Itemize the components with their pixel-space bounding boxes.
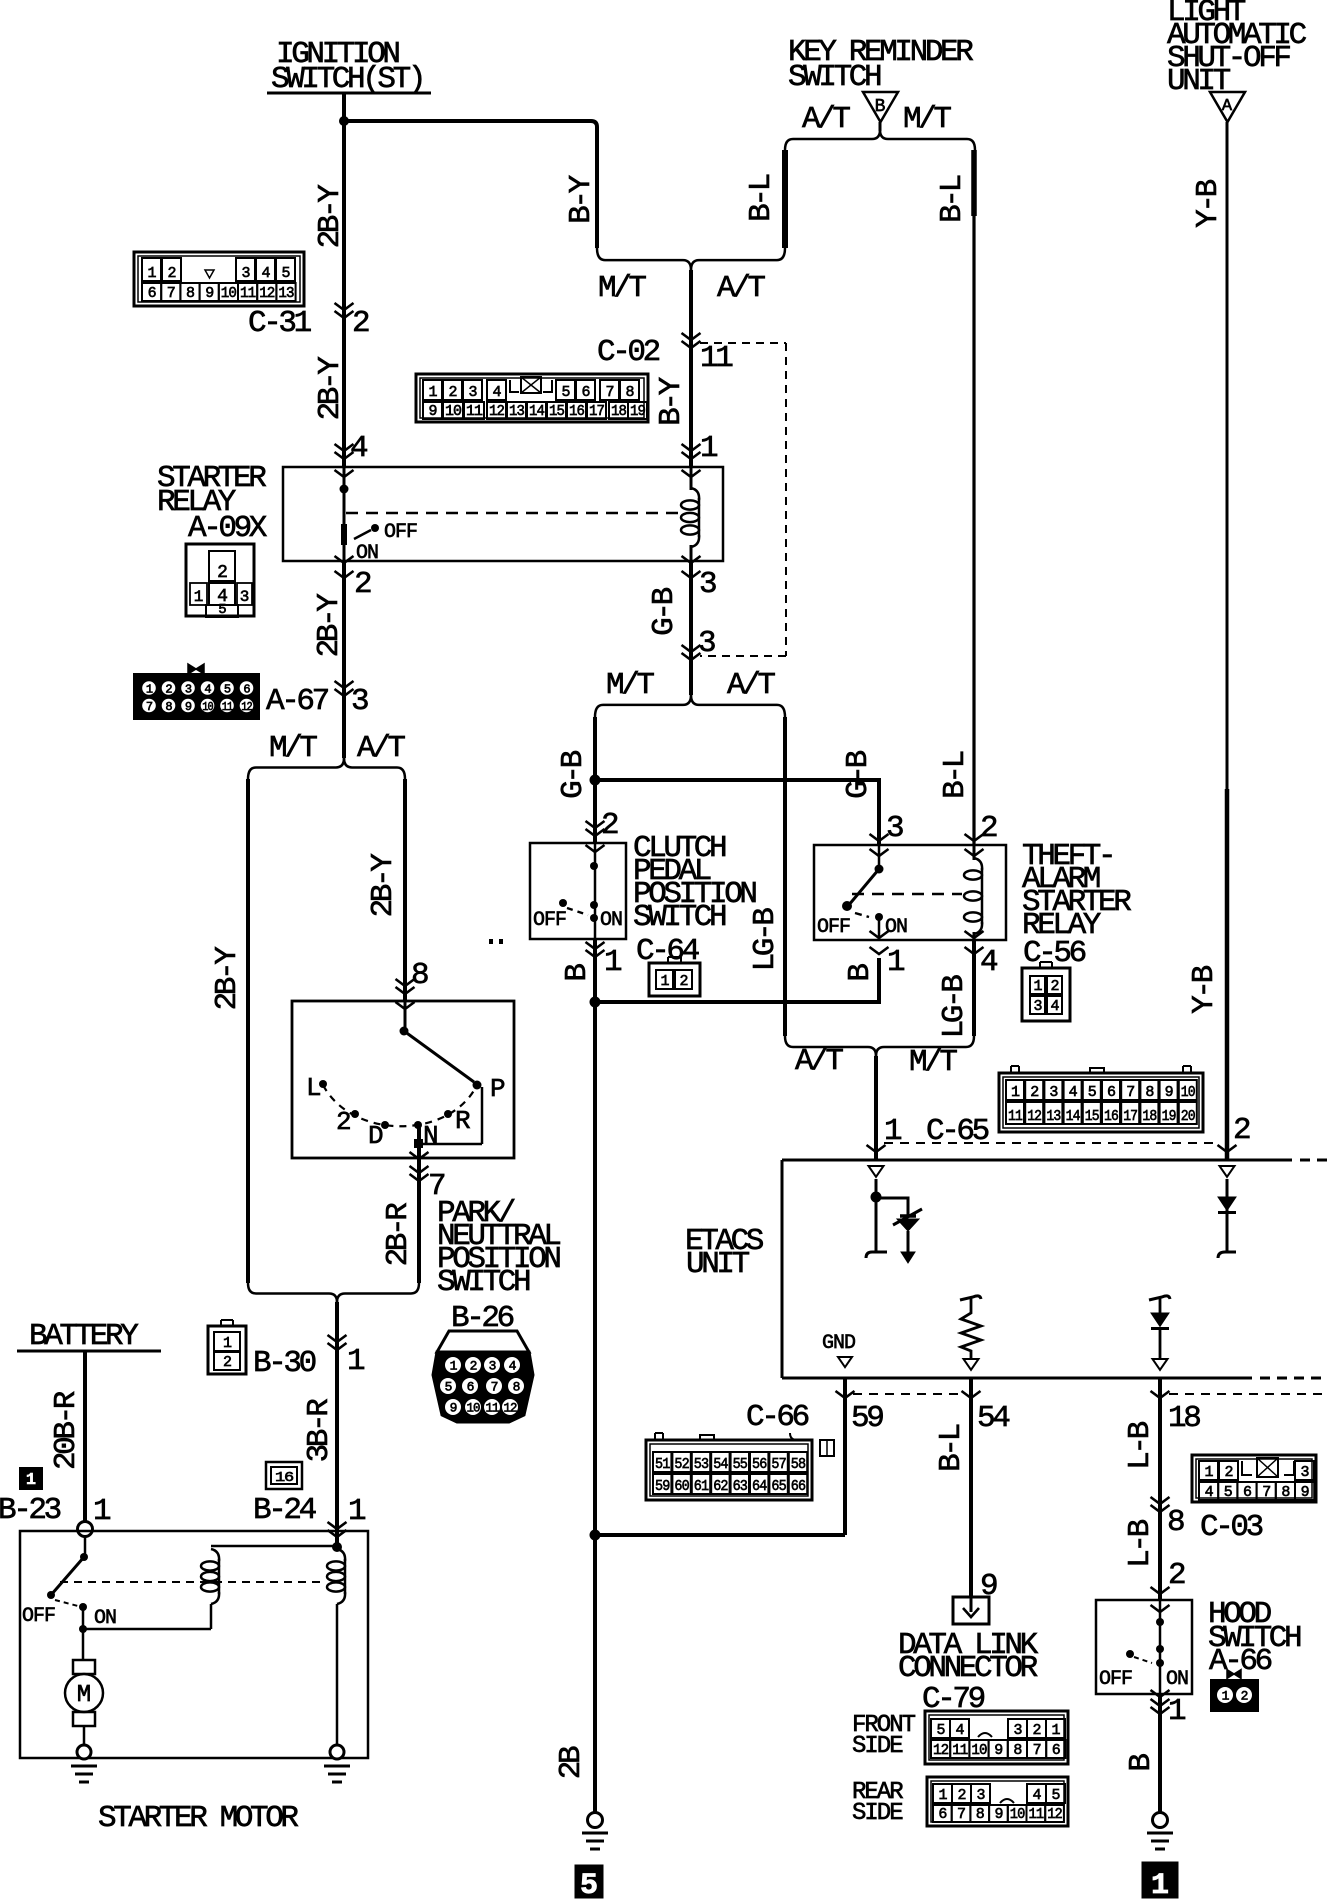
svg-text:56: 56	[752, 1456, 767, 1473]
wire M/T 2B-Y long left	[246, 779, 250, 1283]
connector C-03 icon	[1192, 1455, 1316, 1502]
wire N output	[417, 1125, 421, 1283]
C-66 side icon	[820, 1440, 834, 1456]
starter relay A-09X box	[283, 467, 723, 561]
svg-text:B-24: B-24	[253, 1493, 317, 1528]
park/neutral position switch box	[292, 1001, 514, 1158]
svg-text:6: 6	[1107, 1084, 1116, 1101]
connector C-02 pin 11 crossing	[682, 333, 701, 340]
svg-text:11: 11	[1008, 1108, 1023, 1125]
clutch pin 2 entry	[586, 821, 605, 828]
svg-text:1: 1	[428, 384, 437, 401]
svg-text:C-66: C-66	[746, 1400, 809, 1435]
svg-text:51: 51	[655, 1456, 670, 1473]
svg-text:15: 15	[1085, 1108, 1100, 1125]
svg-text:1: 1	[26, 1471, 36, 1490]
position dots and labels	[319, 1080, 327, 1088]
svg-text:ON: ON	[1166, 1668, 1188, 1691]
svg-text:4: 4	[204, 682, 211, 696]
svg-text:2B-Y: 2B-Y	[313, 356, 348, 421]
svg-text:2: 2	[1032, 1722, 1040, 1739]
svg-text:2: 2	[167, 265, 175, 282]
svg-text:65: 65	[771, 1478, 786, 1495]
svg-text:SWITCH: SWITCH	[633, 900, 726, 935]
svg-text:A-09X: A-09X	[188, 511, 268, 546]
ground bottom middle	[588, 1813, 603, 1828]
svg-text:2B-Y: 2B-Y	[313, 184, 348, 249]
svg-text:SWITCH: SWITCH	[437, 1265, 530, 1300]
svg-text:1: 1	[146, 682, 153, 696]
svg-text:ON: ON	[885, 916, 907, 939]
svg-text:2: 2	[1224, 1464, 1232, 1481]
ETACS zener diode	[900, 1214, 916, 1218]
svg-text:LG-B: LG-B	[937, 975, 972, 1039]
svg-text:11: 11	[466, 403, 483, 420]
junction clutch/theft outputs	[590, 997, 601, 1008]
svg-text:M/T: M/T	[606, 668, 654, 703]
svg-text:G-B: G-B	[647, 587, 682, 635]
brace merge M/T A/T to starter	[248, 1283, 337, 1302]
svg-text:ON: ON	[600, 909, 622, 932]
svg-text:5: 5	[580, 1869, 598, 1900]
svg-text:10: 10	[1010, 1806, 1026, 1823]
svg-text:B-L: B-L	[934, 1424, 969, 1471]
ground bottom right	[1153, 1813, 1168, 1828]
svg-text:12: 12	[259, 285, 274, 302]
dashed right of 18	[1169, 1393, 1324, 1395]
theft relay internal dashed	[852, 893, 962, 895]
svg-text:4: 4	[955, 1722, 964, 1739]
theft-alarm starter relay box	[814, 845, 1006, 940]
svg-text:9: 9	[205, 285, 213, 302]
svg-text:17: 17	[1123, 1108, 1137, 1125]
wire B-L A/T left	[782, 150, 788, 248]
svg-text:6: 6	[581, 384, 590, 401]
svg-text:B-Y: B-Y	[654, 376, 689, 425]
connector A-67 icon	[188, 664, 204, 674]
starter motor hold coil	[332, 1542, 342, 1552]
svg-text:11: 11	[700, 341, 733, 376]
svg-text:CONNECTOR: CONNECTOR	[898, 1651, 1038, 1686]
svg-text:59: 59	[655, 1478, 669, 1495]
svg-text:G-B: G-B	[841, 750, 876, 798]
wire theft relay pin1 link	[595, 958, 879, 1002]
svg-text:5: 5	[1224, 1484, 1233, 1501]
svg-text:7: 7	[1033, 1742, 1041, 1759]
svg-text:LG-B: LG-B	[748, 908, 783, 972]
svg-text:SIDE: SIDE	[852, 1800, 903, 1827]
svg-text:19: 19	[1162, 1108, 1176, 1125]
svg-text:BATTERY: BATTERY	[29, 1319, 139, 1354]
ETACS pin 54 wire B-L	[969, 1378, 973, 1597]
connector A-09X pin 4 entry	[335, 444, 354, 451]
svg-text:6: 6	[243, 682, 250, 696]
svg-text:12: 12	[1027, 1108, 1041, 1125]
svg-text:ON: ON	[356, 542, 378, 565]
connector C-03 crossing	[1151, 1497, 1170, 1504]
svg-text:6: 6	[148, 285, 157, 302]
svg-text:15: 15	[549, 403, 565, 420]
connector C-31 crossing	[335, 303, 354, 310]
svg-text:8: 8	[1013, 1742, 1022, 1759]
svg-text:6: 6	[1243, 1484, 1252, 1501]
wire M/T to clutch switch	[593, 717, 597, 843]
svg-text:2: 2	[1050, 978, 1058, 995]
hood switch contacts	[1151, 1605, 1170, 1612]
svg-text:A/T: A/T	[795, 1044, 843, 1079]
svg-text:1: 1	[1033, 978, 1042, 995]
svg-text:12: 12	[489, 403, 504, 420]
svg-text:A: A	[1222, 97, 1233, 116]
svg-text:OFF: OFF	[817, 916, 850, 939]
relay A-09X pin 2 exit	[335, 556, 354, 563]
svg-text:2: 2	[223, 1354, 231, 1371]
svg-text:9: 9	[994, 1742, 1002, 1759]
svg-text:7: 7	[1126, 1084, 1134, 1101]
wire ignition ST vertical 2B-Y	[342, 94, 346, 467]
svg-text:5: 5	[1051, 1787, 1060, 1804]
dashed C-02 boundary	[700, 342, 786, 344]
svg-text:5: 5	[445, 1380, 452, 1395]
starter motor M	[73, 1660, 95, 1674]
svg-text:18: 18	[1142, 1108, 1157, 1125]
svg-text:ON: ON	[94, 1607, 116, 1630]
svg-text:5: 5	[1088, 1084, 1097, 1101]
svg-text:12: 12	[933, 1742, 948, 1759]
wire B to ground	[1158, 1694, 1162, 1813]
svg-text:M/T: M/T	[909, 1045, 957, 1080]
svg-text:2: 2	[336, 1107, 350, 1137]
svg-text:20: 20	[1181, 1108, 1196, 1125]
svg-text:Y-B: Y-B	[1187, 965, 1222, 1013]
svg-text:2: 2	[601, 808, 618, 843]
connector C-79 rear icon	[927, 1777, 1068, 1826]
svg-text:9: 9	[1165, 1084, 1173, 1101]
svg-text:13: 13	[1046, 1108, 1061, 1125]
wire merged to starter motor	[335, 1302, 339, 1547]
svg-text:M/T: M/T	[269, 731, 317, 766]
svg-text:11: 11	[1029, 1806, 1045, 1823]
svg-text:8: 8	[1145, 1084, 1154, 1101]
svg-text:3: 3	[185, 682, 192, 696]
wire Y-B long	[1226, 122, 1229, 789]
svg-text:9: 9	[994, 1806, 1002, 1823]
svg-text:1: 1	[1222, 1689, 1230, 1704]
page ref triangle A	[1210, 92, 1245, 122]
svg-text:A/T: A/T	[727, 668, 775, 703]
wire merged to starter relay	[689, 270, 693, 467]
clutch pin 1 exit	[586, 942, 605, 949]
svg-text:A/T: A/T	[802, 102, 850, 137]
svg-text:9: 9	[185, 700, 192, 714]
svg-text:11: 11	[952, 1742, 968, 1759]
svg-text:C-03: C-03	[1200, 1510, 1263, 1545]
svg-text:2B-Y: 2B-Y	[366, 853, 401, 918]
theft relay coil	[973, 845, 976, 860]
ETACS diode to pin 18	[1149, 1296, 1170, 1300]
svg-text:A/T: A/T	[717, 271, 765, 306]
svg-text:2: 2	[980, 811, 997, 846]
svg-text:2B-Y: 2B-Y	[210, 946, 245, 1011]
svg-text:3: 3	[240, 588, 249, 606]
svg-text:5: 5	[936, 1722, 945, 1739]
hood switch box	[1096, 1600, 1192, 1694]
svg-text:12: 12	[241, 700, 252, 714]
svg-text:UNIT: UNIT	[1167, 64, 1231, 99]
theft relay pin 3 chevrons	[870, 834, 889, 841]
svg-text:3B-R: 3B-R	[302, 1399, 337, 1463]
svg-text:1: 1	[1204, 1464, 1213, 1481]
starter motor box	[20, 1531, 368, 1758]
svg-text:3: 3	[489, 1359, 496, 1374]
theft relay switch	[878, 845, 881, 869]
svg-text:58: 58	[791, 1456, 806, 1473]
theft relay pin 1 exit	[870, 931, 889, 938]
svg-text:60: 60	[674, 1478, 689, 1495]
svg-text:14: 14	[529, 403, 545, 420]
svg-text:1: 1	[1151, 1869, 1169, 1900]
connector C-02 pin 1 entry to relay	[682, 444, 701, 451]
brace split A/T M/T under key reminder switch	[785, 130, 880, 150]
wire branch to B-Y merge	[344, 121, 597, 248]
svg-text:2: 2	[957, 1787, 965, 1804]
svg-text:6: 6	[938, 1806, 947, 1823]
svg-text:10: 10	[467, 1401, 480, 1416]
svg-text:9: 9	[1301, 1484, 1309, 1501]
svg-text:12: 12	[1047, 1806, 1062, 1823]
svg-text:2B: 2B	[554, 1746, 589, 1779]
connector B-30 icon	[208, 1326, 246, 1374]
svg-text:2: 2	[1168, 1558, 1185, 1593]
svg-text:7: 7	[605, 384, 613, 401]
svg-text:OFF: OFF	[533, 909, 566, 932]
svg-text:66: 66	[791, 1478, 806, 1495]
svg-text:10: 10	[971, 1742, 987, 1759]
svg-text:5: 5	[281, 265, 290, 282]
svg-text:3: 3	[1300, 1464, 1309, 1481]
svg-text:12: 12	[504, 1401, 517, 1416]
svg-text:2: 2	[679, 973, 687, 990]
svg-text:3: 3	[1049, 1084, 1058, 1101]
wire P position link	[481, 1087, 484, 1144]
svg-text:8: 8	[165, 700, 172, 714]
clutch switch contacts	[594, 843, 597, 939]
svg-text:10: 10	[445, 403, 462, 420]
ETACS unit box	[781, 1160, 784, 1378]
svg-text:7: 7	[1262, 1484, 1270, 1501]
wire to ETACS pin 1	[874, 1056, 878, 1160]
svg-text:OFF: OFF	[22, 1605, 55, 1628]
svg-text:63: 63	[733, 1478, 748, 1495]
starter motor switch	[84, 1536, 87, 1557]
svg-text:D: D	[368, 1121, 383, 1151]
C-65 dashed boundary	[884, 1142, 1219, 1144]
connector B-26 icon	[437, 1331, 529, 1352]
svg-text:57: 57	[771, 1456, 785, 1473]
starter motor ground right	[330, 1745, 344, 1759]
svg-text:16: 16	[275, 1470, 294, 1486]
page number 1	[1142, 1862, 1178, 1898]
svg-text:2: 2	[352, 306, 369, 341]
connector A-66 icon	[1227, 1670, 1241, 1679]
svg-text:8: 8	[186, 285, 195, 302]
fusible link 1 icon	[20, 1468, 42, 1489]
svg-text:M: M	[77, 1682, 91, 1709]
svg-text:8: 8	[411, 958, 428, 993]
svg-text:19: 19	[630, 403, 645, 420]
connector C-02 icon	[416, 374, 648, 422]
svg-text:M/T: M/T	[903, 102, 951, 137]
stray dots artifact	[489, 939, 493, 944]
svg-text:4: 4	[509, 1359, 517, 1374]
svg-text:7: 7	[491, 1380, 498, 1395]
svg-text:9: 9	[428, 403, 436, 420]
svg-text:G-B: G-B	[556, 750, 591, 798]
svg-text:59: 59	[851, 1401, 883, 1436]
connector C-79 front icon	[925, 1711, 1068, 1764]
svg-text:B-L: B-L	[935, 175, 970, 222]
svg-text:SIDE: SIDE	[852, 1733, 903, 1760]
connector C-56 icon	[1022, 968, 1070, 1021]
svg-text:4: 4	[492, 384, 501, 401]
svg-text:17: 17	[589, 403, 604, 420]
wire G-B below relay	[689, 561, 693, 695]
park/neutral switch arm	[404, 1001, 407, 1031]
svg-text:1: 1	[147, 265, 156, 282]
svg-text:GND: GND	[822, 1332, 855, 1355]
svg-text:L: L	[306, 1073, 320, 1103]
svg-text:OFF: OFF	[1099, 1668, 1132, 1691]
svg-text:8: 8	[1167, 1505, 1184, 1540]
svg-text:4: 4	[1050, 998, 1059, 1015]
svg-text:1: 1	[450, 1359, 458, 1374]
svg-text:P: P	[490, 1074, 505, 1104]
svg-text:L-B: L-B	[1123, 1519, 1158, 1567]
park/neutral pin 7 exit	[410, 1152, 429, 1159]
svg-text:7: 7	[957, 1806, 965, 1823]
svg-text:62: 62	[713, 1478, 727, 1495]
svg-text:9: 9	[450, 1401, 457, 1416]
dashed 59-54	[853, 1393, 962, 1395]
connector A-09X pin layout icon	[186, 544, 254, 616]
svg-text:SWITCH: SWITCH	[788, 60, 881, 95]
wire clutch to ground junction	[593, 939, 597, 1002]
svg-text:2: 2	[217, 563, 227, 583]
connector B-23 terminal circle	[78, 1522, 93, 1537]
dashed entry chevron	[682, 645, 701, 652]
wire 2B down to ground	[593, 1002, 597, 1535]
svg-text:8: 8	[513, 1380, 520, 1395]
starter motor pull-in coil	[211, 1545, 337, 1548]
svg-text:3: 3	[1013, 1722, 1022, 1739]
svg-text:54: 54	[977, 1401, 1010, 1436]
svg-text:53: 53	[694, 1456, 709, 1473]
svg-text:B-L: B-L	[744, 174, 779, 221]
starter motor ground left	[77, 1745, 91, 1759]
wire 2B-Y below relay	[342, 561, 346, 758]
svg-text:A/T: A/T	[357, 731, 405, 766]
svg-text:8: 8	[976, 1806, 985, 1823]
svg-text:3: 3	[241, 265, 250, 282]
wire G-B to theft relay pin 3	[595, 780, 879, 845]
svg-text:14: 14	[1066, 1108, 1081, 1125]
relay A-09X switch	[340, 485, 349, 494]
svg-text:B-Y: B-Y	[564, 174, 599, 223]
svg-text:10: 10	[1181, 1084, 1196, 1101]
svg-text:4: 4	[1032, 1787, 1041, 1804]
svg-text:3: 3	[886, 811, 903, 846]
svg-text:10: 10	[221, 285, 237, 302]
svg-text:2: 2	[470, 1359, 477, 1374]
svg-text:2B-Y: 2B-Y	[312, 593, 347, 658]
ETACS pin 1 internal	[869, 1166, 884, 1177]
svg-text:UNIT: UNIT	[686, 1247, 750, 1282]
connector B-30 crossing	[328, 1335, 347, 1342]
svg-text:2: 2	[448, 384, 456, 401]
wire B-L M/T right long	[971, 150, 977, 216]
theft relay pin 2 chevrons	[965, 834, 984, 841]
svg-text:20B-R: 20B-R	[49, 1391, 84, 1470]
svg-text:1: 1	[223, 1335, 232, 1352]
junction ground bus	[590, 1530, 601, 1541]
svg-text:B: B	[875, 97, 886, 117]
svg-text:2: 2	[354, 567, 371, 602]
svg-text:3: 3	[351, 684, 368, 719]
hood switch pin 1 exit	[1151, 1699, 1170, 1706]
connector C-65 icon	[999, 1073, 1203, 1132]
park/neutral pin 8 entry	[396, 979, 415, 986]
svg-text:13: 13	[509, 403, 525, 420]
svg-text:OFF: OFF	[384, 521, 417, 544]
relay A-09X internal dashed link	[346, 512, 682, 514]
svg-text:5: 5	[561, 384, 570, 401]
svg-text:B-30: B-30	[253, 1346, 316, 1381]
svg-text:3: 3	[699, 567, 716, 602]
fuse icon near B-24	[266, 1462, 302, 1489]
svg-text:Y-B: Y-B	[1191, 179, 1226, 227]
svg-text:2: 2	[165, 682, 172, 696]
svg-text:4: 4	[1069, 1084, 1078, 1101]
svg-text:3: 3	[698, 626, 715, 661]
svg-text:1: 1	[1051, 1722, 1060, 1739]
svg-text:8: 8	[625, 384, 634, 401]
svg-text:18: 18	[611, 403, 627, 420]
svg-text:4: 4	[261, 265, 270, 282]
page ref triangle B	[863, 92, 898, 122]
ETACS pin 18 wire L-B	[1158, 1378, 1162, 1600]
svg-text:1: 1	[1011, 1084, 1020, 1101]
page number 5	[575, 1865, 603, 1898]
svg-text:R: R	[455, 1106, 470, 1136]
svg-text:5: 5	[218, 602, 226, 618]
svg-text:C-56: C-56	[1023, 936, 1086, 971]
ETACS pin 2 internal diode	[1220, 1166, 1235, 1177]
connector C-64 icon	[649, 963, 700, 996]
svg-text:B-L: B-L	[938, 751, 973, 798]
svg-text:16: 16	[569, 403, 585, 420]
svg-text:8: 8	[1281, 1484, 1290, 1501]
svg-text:L-B: L-B	[1123, 1421, 1158, 1469]
svg-text:11: 11	[486, 1401, 500, 1416]
theft relay pin 4 exit	[965, 931, 984, 938]
svg-text:11: 11	[222, 700, 233, 714]
svg-text:C-31: C-31	[248, 306, 312, 341]
svg-text:6: 6	[1052, 1742, 1061, 1759]
svg-text:5: 5	[224, 682, 231, 696]
svg-text:10: 10	[202, 700, 213, 714]
junction ignition branch	[339, 116, 349, 126]
svg-text:3: 3	[976, 1787, 985, 1804]
